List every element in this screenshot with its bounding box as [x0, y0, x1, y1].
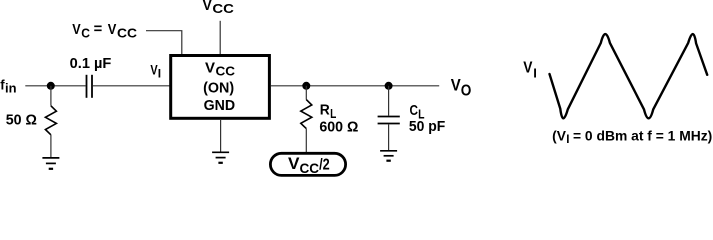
svg-text:=: = — [94, 22, 103, 38]
svg-text:V: V — [451, 77, 461, 95]
source oval VCC/2 — [270, 153, 345, 175]
svg-text:CC: CC — [117, 25, 138, 40]
wire input horizontal — [25, 85, 85, 87]
svg-text:V: V — [72, 22, 81, 38]
ground (below box) — [212, 152, 229, 163]
wire CL to ground — [388, 124, 390, 150]
svg-text:V: V — [288, 155, 300, 173]
capacitor 0.1 uF plates — [87, 75, 93, 98]
label CL — [410, 103, 425, 121]
svg-text:= 0 dBm at f = 1 MHz): = 0 dBm at f = 1 MHz) — [573, 127, 712, 143]
svg-text:I: I — [566, 134, 569, 146]
label VO — [451, 77, 472, 100]
label VI pin — [150, 62, 161, 81]
wire dot to CL — [388, 86, 390, 116]
wire VC to box top — [146, 31, 182, 55]
label VCC top — [203, 0, 235, 16]
node input junction dot — [47, 82, 55, 90]
svg-text:C: C — [81, 25, 90, 40]
svg-text:R: R — [320, 103, 330, 119]
waveform triangle wave — [550, 34, 708, 118]
ground (below CL) — [380, 151, 397, 161]
svg-text:V: V — [108, 22, 117, 38]
wire dot to RL — [305, 86, 307, 100]
label VI waveform — [523, 59, 537, 80]
wire R 50 to ground — [50, 135, 52, 157]
svg-text:C: C — [410, 103, 419, 119]
svg-text:CC: CC — [216, 63, 236, 78]
wire box GND to ground — [220, 119, 222, 152]
device box U1 — [171, 56, 270, 119]
svg-text:V: V — [523, 59, 533, 76]
node fin label — [0, 77, 16, 96]
svg-text:O: O — [461, 83, 472, 100]
svg-text:I: I — [158, 66, 161, 80]
svg-text:600 Ω: 600 Ω — [319, 120, 358, 136]
label VCC/2 — [288, 155, 330, 176]
svg-text:0.1 µF: 0.1 µF — [70, 56, 112, 72]
node RL junction dot — [302, 82, 310, 90]
wire VCC to box top — [219, 21, 221, 55]
svg-text:in: in — [5, 81, 17, 95]
svg-text:GND: GND — [204, 98, 236, 114]
wire junction to R 50 — [50, 86, 52, 106]
capacitor CL plates — [378, 117, 400, 124]
resistor RL — [301, 100, 312, 129]
label VC = VCC — [72, 22, 137, 41]
svg-text:50 Ω: 50 Ω — [6, 112, 38, 128]
svg-text:CC: CC — [212, 1, 234, 16]
svg-text:CC: CC — [300, 160, 320, 176]
svg-text:(ON): (ON) — [203, 80, 234, 96]
svg-text:(V: (V — [552, 127, 566, 143]
resistor 50 ohm — [45, 106, 56, 135]
wire output — [271, 85, 440, 87]
svg-text:50 pF: 50 pF — [409, 119, 445, 135]
node CL junction dot — [385, 82, 393, 90]
caption waveform condition — [552, 127, 712, 146]
box pin label VCC — [205, 60, 236, 78]
ground (below 50 ohm) — [42, 158, 59, 169]
wire RL to VCC/2 source — [305, 129, 307, 153]
svg-text:V: V — [205, 60, 215, 76]
svg-text:V: V — [203, 0, 212, 14]
svg-text:I: I — [533, 65, 537, 80]
label RL — [320, 103, 337, 121]
svg-text:L: L — [330, 106, 336, 121]
wire capacitor to box — [93, 85, 170, 87]
svg-text:/2: /2 — [319, 156, 330, 173]
